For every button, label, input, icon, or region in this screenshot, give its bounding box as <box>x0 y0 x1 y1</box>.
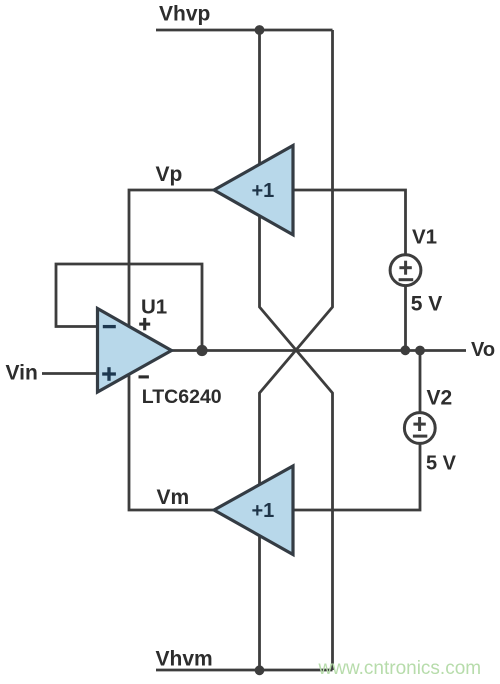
wire: Vhvp top rail <box>156 29 333 32</box>
svg-text:V1: V1 <box>412 225 437 248</box>
svg-text:Vp: Vp <box>156 163 183 186</box>
svg-text:+1: +1 <box>252 180 275 202</box>
wire: V1 bottom to Vo node <box>404 287 407 351</box>
svg-text:Vhvm: Vhvm <box>156 648 213 671</box>
wire: cross line from Vhvp right corner to Vhvm dot (through buffer B supplies) <box>260 30 333 670</box>
op-amp V+ supply marker (+) <box>139 318 150 330</box>
wire: Vhvm bottom rail <box>156 669 333 672</box>
node: V1 junction dot on Vo line <box>400 345 410 355</box>
svg-text:V2: V2 <box>427 387 453 410</box>
voltage source V1 <box>390 255 421 286</box>
node: junction dot on Vhvm rail <box>255 665 265 675</box>
svg-text:5 V: 5 V <box>411 293 443 316</box>
svg-text:U1: U1 <box>141 296 167 319</box>
wire: op-amp output line to Vo <box>172 349 466 352</box>
voltage source V2 <box>404 413 435 444</box>
svg-text:www.cntronics.com: www.cntronics.com <box>318 658 482 679</box>
op-amp U1 triangle <box>98 309 172 393</box>
wire: buffer A output Vp to op-amp V+ supply <box>129 190 214 330</box>
svg-text:Vm: Vm <box>157 486 190 509</box>
svg-text:+1: +1 <box>252 500 275 522</box>
wire: Vo node to V2 top <box>419 351 422 414</box>
svg-text:Vin: Vin <box>6 362 38 385</box>
wire: Vin input to op-amp non-inverting input <box>42 372 98 375</box>
wire: buffer A input from V1 top <box>293 190 406 255</box>
svg-text:LTC6240: LTC6240 <box>142 386 222 408</box>
buffer amplifier B (+1) triangle <box>214 466 293 555</box>
op-amp V- supply marker (-) <box>139 375 149 378</box>
svg-text:Vhvp: Vhvp <box>159 3 210 26</box>
op-amp non-inverting input marker (+) <box>102 367 116 381</box>
wire: feedback loop from inverting input to output node <box>56 264 202 351</box>
wire: buffer B output Vm to op-amp V- supply <box>129 370 214 510</box>
wire: cross line from Vhvp dot to Vhvm right corner (through buffer A supplies) <box>260 30 333 670</box>
op-amp inverting input marker (-) <box>103 325 116 328</box>
wire: V2 bottom to buffer B input <box>293 444 420 511</box>
node: junction dot on Vhvp rail <box>255 25 265 35</box>
node: V2 junction dot on Vo line <box>415 346 425 356</box>
svg-text:5 V: 5 V <box>426 452 457 474</box>
buffer amplifier A (+1) triangle <box>214 146 293 235</box>
node: op-amp output junction dot <box>196 345 207 356</box>
svg-text:Vo: Vo <box>471 339 495 361</box>
